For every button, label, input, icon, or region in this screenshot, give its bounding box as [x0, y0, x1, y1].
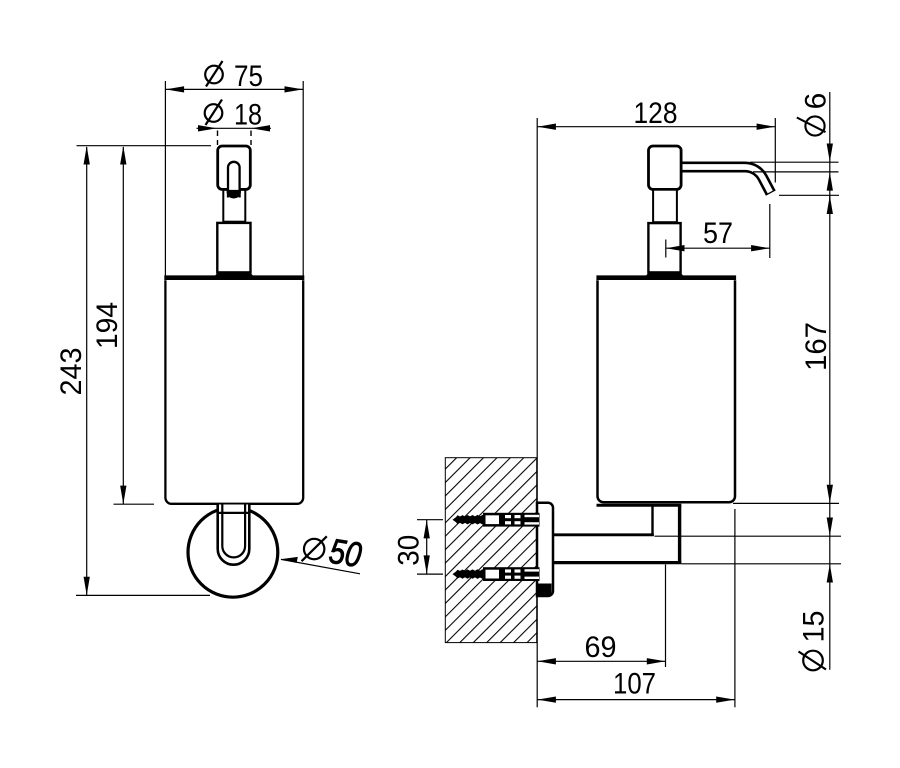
dimension 69 right arrow — [647, 658, 666, 664]
svg-text:75: 75 — [234, 60, 263, 93]
dimension 128 line — [537, 126, 775, 128]
wall mount circle front — [188, 507, 278, 597]
svg-text:167: 167 — [800, 322, 833, 371]
dimension 194 bottom reference tick — [114, 503, 155, 505]
dimension 107 right extension line (bottle right) — [734, 509, 736, 707]
pump spout side: black tube — [680, 167, 771, 193]
dimension d75 line — [165, 88, 303, 90]
extension line outlet bottom — [779, 194, 839, 196]
svg-text:6: 6 — [800, 93, 833, 110]
pump spout outlet edge line — [766, 190, 776, 195]
svg-text:107: 107 — [613, 668, 656, 701]
svg-text:30: 30 — [393, 535, 426, 566]
dimension 167 top arrow (up, tip at 195.3) — [827, 196, 833, 215]
svg-text:128: 128 — [634, 97, 678, 130]
dimension 107 left arrow — [537, 696, 556, 702]
d6 extension line tube top — [750, 161, 839, 163]
dimension 167 vertical line — [829, 195, 831, 503]
screw 1 (top) — [453, 513, 540, 527]
dimension d75 right arrow — [285, 86, 304, 92]
dimension 57 right extension line — [769, 204, 771, 258]
dimension 243 vertical line — [86, 147, 88, 595]
wall face extension line (full: above and below wall) — [536, 118, 538, 707]
svg-text:18: 18 — [234, 99, 262, 132]
pump neck front — [223, 190, 245, 222]
dimension 57 left tick (pump centre) — [665, 240, 667, 258]
dimension 30 bottom arrow — [424, 555, 430, 574]
d15 extension line arm top — [655, 535, 842, 537]
label diameter symbol 75 — [205, 61, 223, 87]
dimension 107 line — [537, 699, 735, 701]
pump collar front — [217, 223, 250, 273]
wall hatched section — [445, 458, 536, 643]
mount cup front outer — [218, 505, 250, 565]
dimension d75 left extension line — [164, 81, 166, 276]
d15 extension line arm bottom — [681, 563, 841, 565]
svg-text:69: 69 — [585, 631, 617, 664]
label d6 (rotated) — [797, 93, 833, 136]
pump head side — [649, 146, 682, 189]
pump base trapezoid front — [213, 273, 255, 278]
bottle side top thick line — [596, 275, 736, 280]
svg-text:243: 243 — [55, 348, 88, 396]
dimension 128 left arrow — [537, 124, 556, 130]
dimension 128 right extension line — [774, 118, 776, 183]
dimension 69 right extension line (cup centre) — [665, 565, 667, 668]
svg-text:194: 194 — [91, 302, 124, 349]
bracket holder top rim line — [597, 504, 682, 507]
extension line bottle bottom side — [733, 502, 839, 504]
dimension 57 line — [666, 247, 770, 249]
mount cup front inner top line — [217, 512, 251, 514]
leader d50 arrow — [280, 557, 298, 563]
pump neck side — [653, 190, 677, 223]
dimension 57 right arrow — [751, 245, 770, 251]
svg-text:15: 15 — [798, 611, 831, 643]
d15 vertical dim line — [829, 503, 831, 669]
bracket holder cup right wall — [678, 505, 681, 564]
dimension 243 bottom arrow — [84, 577, 90, 596]
pump slot black bottom — [227, 190, 241, 199]
pump head front — [218, 146, 251, 189]
dimension d18 dashed extension lines — [217, 131, 219, 146]
dimension d75 left arrow — [166, 86, 185, 92]
dimension 194 vertical line — [122, 147, 124, 504]
dimension 107 right arrow — [716, 696, 735, 702]
dimension 69 left arrow — [537, 658, 556, 664]
mounting plate side — [537, 503, 553, 596]
pump spout side: white core — [680, 167, 773, 198]
bracket arm bottom line — [553, 561, 681, 564]
bottle front top thick line — [164, 275, 304, 280]
dimension 128 right arrow — [757, 124, 776, 130]
dimension 30 top arrow — [424, 520, 430, 539]
label diameter symbol 18 — [205, 100, 223, 126]
dimension 194 top arrow — [120, 146, 126, 165]
svg-text:57: 57 — [703, 217, 733, 250]
screw 2 (bottom) — [453, 567, 540, 581]
dimension d18 left arrow (pointing right, tip at left ext) — [198, 125, 217, 131]
dimension d75 right extension line — [302, 81, 304, 276]
dimension d18 right arrow (pointing left, tip at right ext) — [252, 125, 271, 131]
bracket arm top line — [553, 533, 654, 536]
d6 extension line tube bottom — [753, 171, 839, 173]
mounting plate bottom black cap — [536, 584, 551, 597]
bottle front — [165, 280, 303, 504]
top reference line (pump top level) — [77, 145, 212, 147]
svg-text:50: 50 — [326, 532, 364, 576]
d6 bottom arrow (up, tip at 171.9) — [827, 172, 833, 191]
d6 vertical dim line (upper) — [829, 92, 831, 207]
dimension 167 bottom arrow (down, tip at 504.6) — [827, 485, 833, 504]
dimension 30 top tick — [417, 519, 443, 521]
dimension 30 vertical line — [426, 520, 428, 574]
dimension d18 line — [197, 127, 272, 129]
d15 bottom arrow (up, tip at 563.5) — [827, 564, 833, 583]
pump collar side — [648, 223, 680, 272]
label d50 (rotated) — [301, 528, 365, 576]
dimension 243 bottom reference line — [76, 594, 210, 596]
dimension 30 bottom tick — [417, 573, 443, 575]
dimension 57 left arrow — [666, 245, 685, 251]
bottle side — [598, 280, 736, 502]
mount cup front inner — [222, 505, 245, 558]
bracket holder cup left wall — [651, 506, 653, 537]
pump base trapezoid side — [644, 273, 685, 278]
leader line d50 — [281, 559, 360, 573]
pump slot front — [228, 162, 240, 198]
dimension 243 top arrow — [84, 146, 90, 165]
d6 top arrow (down, tip at 162.2) — [827, 144, 833, 163]
dimension 194 bottom arrow — [120, 486, 126, 505]
dimension 69 line — [537, 660, 665, 662]
d15 top arrow (down, tip at 535.7) — [827, 518, 833, 537]
label d15 (rotated) — [798, 611, 831, 671]
